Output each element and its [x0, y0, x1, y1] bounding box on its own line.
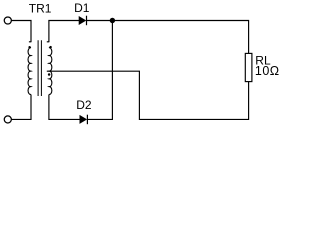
- wire: top input terminal to TR1 primary top lead: [12, 21, 32, 43]
- diode D1: [79, 16, 86, 26]
- wire: bottom input terminal to TR1 primary bottom lead: [12, 95, 32, 120]
- junction dot: output node A: [110, 18, 115, 23]
- polarity dot: TR1 secondary: [49, 46, 51, 48]
- svg-text:10Ω: 10Ω: [255, 64, 280, 78]
- transformer TR1 primary winding: [28, 48, 31, 95]
- svg-text:D2: D2: [76, 98, 92, 112]
- wire: D1 cathode to top rail and down to RL top: [87, 21, 249, 54]
- wire: TR1 secondary top lead to D1 anode: [47, 21, 80, 43]
- wire: output node down to D2 cathode: [87, 21, 112, 120]
- junction dot: TR1 center tap: [48, 73, 51, 76]
- terminal: AC input (top): [4, 17, 11, 24]
- svg-text:TR1: TR1: [29, 2, 52, 16]
- terminal: AC input (bottom): [4, 116, 11, 123]
- diode D2: [80, 115, 88, 125]
- resistor RL: [245, 53, 252, 81]
- transformer TR1 secondary winding: [49, 48, 52, 95]
- wire: TR1 secondary bottom lead to D2 anode: [49, 95, 80, 120]
- svg-text:D1: D1: [74, 1, 90, 15]
- polarity dot: TR1 primary: [28, 46, 30, 48]
- wire: center tap return rail to RL bottom: [47, 71, 249, 119]
- transformer TR1 core: [38, 40, 41, 96]
